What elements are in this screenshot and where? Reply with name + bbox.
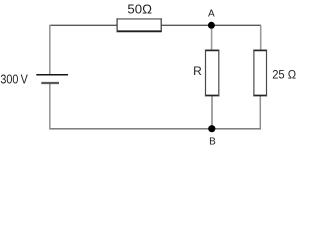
svg-text:R: R [193,64,202,78]
svg-text:300 V: 300 V [0,71,28,86]
svg-text:25 Ω: 25 Ω [272,68,296,82]
svg-text:50Ω: 50Ω [127,2,152,17]
svg-text:B: B [209,136,216,146]
svg-text:A: A [208,8,215,19]
